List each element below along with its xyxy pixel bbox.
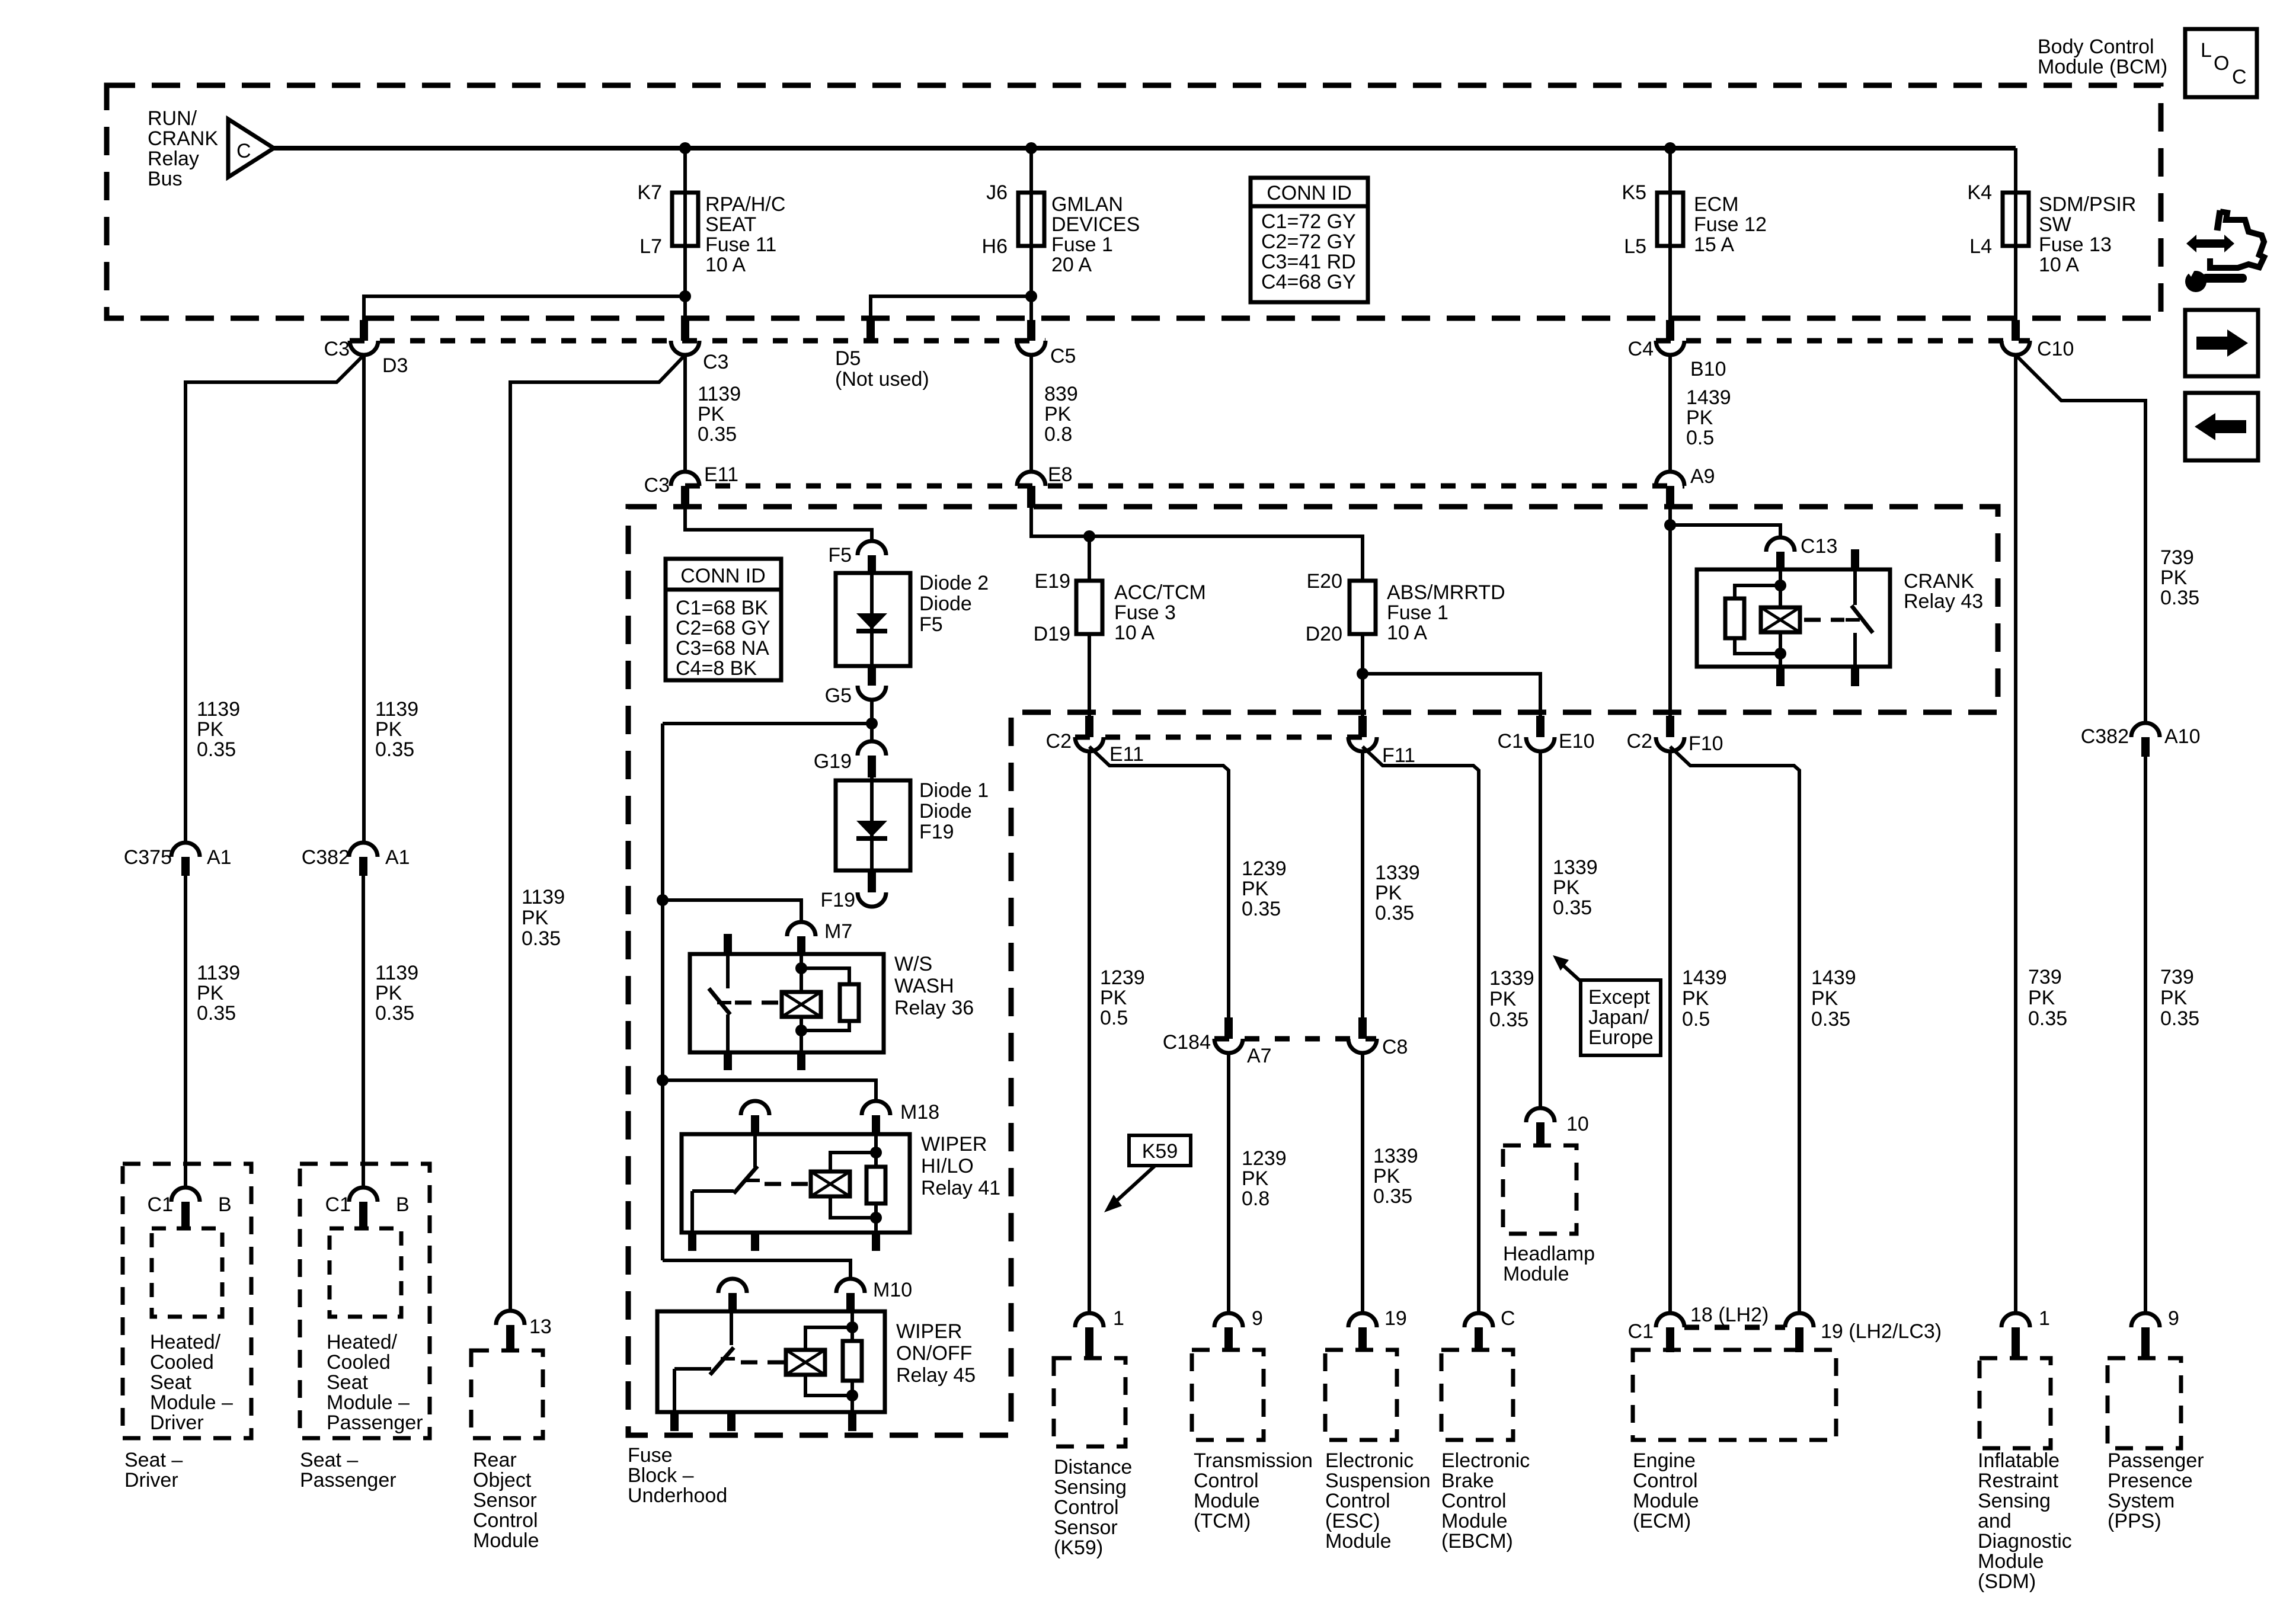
svg-text:1139: 1139 xyxy=(197,698,240,721)
wire label 1339 PK 0.35 (E10) xyxy=(1553,856,1598,919)
svg-text:C3: C3 xyxy=(703,351,728,373)
diode 1 labels xyxy=(919,779,989,843)
svg-text:C: C xyxy=(236,140,251,162)
svg-text:(SDM): (SDM) xyxy=(1978,1570,2036,1593)
svg-text:L4: L4 xyxy=(1969,235,1992,258)
svg-text:Seat: Seat xyxy=(327,1371,368,1394)
relay 36 dash link xyxy=(735,1001,782,1005)
svg-text:Module: Module xyxy=(1503,1263,1569,1285)
svg-text:1139: 1139 xyxy=(522,886,565,908)
wire label 1439 PK 0.5 (ECM) xyxy=(1682,966,1727,1030)
svg-text:ECM: ECM xyxy=(1694,193,1739,216)
Fuse Block label xyxy=(628,1444,727,1507)
svg-text:PK: PK xyxy=(2160,566,2188,589)
wire K5 fuse drop xyxy=(1668,148,1672,320)
label C184 xyxy=(1163,1031,1211,1054)
svg-text:Fuse 1: Fuse 1 xyxy=(1387,601,1448,624)
svg-text:C4=68 GY: C4=68 GY xyxy=(1261,271,1356,293)
label E8 xyxy=(1048,463,1073,486)
svg-text:PK: PK xyxy=(522,907,549,929)
svg-text:F5: F5 xyxy=(919,613,943,636)
svg-text:WIPER: WIPER xyxy=(896,1320,962,1343)
wire rail from G5 junction xyxy=(663,722,872,725)
svg-text:B10: B10 xyxy=(1690,358,1726,380)
label C1 seat driver xyxy=(148,1193,173,1216)
wire label 739 PK 0.35 (PPS) xyxy=(2160,966,2199,1030)
relay 45 pin wire xyxy=(850,1311,854,1412)
junction dot bus-J6 xyxy=(1025,142,1037,154)
svg-text:Seat –: Seat – xyxy=(300,1449,358,1471)
svg-text:Heated/: Heated/ xyxy=(150,1331,221,1353)
wire C5 down to E8 xyxy=(1029,355,1033,472)
svg-text:0.35: 0.35 xyxy=(2028,1007,2067,1030)
label C3 right xyxy=(703,351,728,373)
label 9 pps xyxy=(2168,1307,2179,1330)
wire label 1139 PK 0.35 (driver upper) xyxy=(197,698,240,761)
ecm dashed box xyxy=(1633,1350,1836,1440)
connector C375/A1 xyxy=(171,843,200,876)
connector A9 xyxy=(1656,472,1684,508)
label B10 xyxy=(1690,358,1726,380)
svg-text:CONN ID: CONN ID xyxy=(680,565,766,587)
connector row 1 dotted line (left) xyxy=(350,338,1045,344)
connector 10 headlamp xyxy=(1526,1108,1555,1145)
wire jog K7 to D3 xyxy=(364,296,685,322)
svg-text:PK: PK xyxy=(1375,882,1402,904)
svg-text:Relay: Relay xyxy=(148,148,199,170)
svg-text:C1: C1 xyxy=(148,1193,173,1216)
svg-text:0.35: 0.35 xyxy=(1242,898,1281,920)
svg-text:1439: 1439 xyxy=(1686,386,1731,409)
svg-text:0.5: 0.5 xyxy=(1682,1008,1710,1030)
label C1 left of E10 xyxy=(1498,730,1523,753)
wire bus corner to K4 fuse xyxy=(2014,148,2017,193)
svg-text:F5: F5 xyxy=(828,544,852,566)
label A1 passenger xyxy=(385,846,410,869)
svg-text:Fuse 3: Fuse 3 xyxy=(1114,601,1176,624)
svg-text:PK: PK xyxy=(1682,987,1709,1010)
connector 9 pps xyxy=(2131,1313,2160,1358)
svg-text:Module (BCM): Module (BCM) xyxy=(2038,56,2167,78)
pin label D19 xyxy=(1034,623,1070,645)
svg-text:L5: L5 xyxy=(1624,235,1646,258)
wire label 1339 PK 0.35 (ESC) xyxy=(1373,1145,1418,1208)
svg-text:PK: PK xyxy=(375,718,402,741)
svg-text:C4: C4 xyxy=(1628,338,1654,360)
svg-text:Presence: Presence xyxy=(2108,1470,2193,1492)
sdm label xyxy=(1978,1449,2072,1593)
svg-text:Underhood: Underhood xyxy=(628,1484,727,1507)
wire F10 to ECM C1 xyxy=(1668,751,1672,1313)
label G5 xyxy=(825,684,852,707)
svg-text:Passenger: Passenger xyxy=(300,1469,396,1491)
svg-text:10 A: 10 A xyxy=(1387,622,1427,644)
wire E11 diagonal to TCM xyxy=(1089,747,1229,1017)
CONN ID table (fuse block) xyxy=(666,559,781,680)
svg-text:F10: F10 xyxy=(1689,732,1723,755)
svg-text:Module: Module xyxy=(1325,1530,1392,1553)
connector 19 esc xyxy=(1348,1313,1377,1350)
pin label D20 xyxy=(1306,623,1342,645)
svg-text:Electronic: Electronic xyxy=(1325,1449,1414,1472)
wire J6 fuse drop xyxy=(1029,148,1033,320)
svg-text:(EBCM): (EBCM) xyxy=(1441,1530,1513,1553)
svg-text:Headlamp: Headlamp xyxy=(1503,1243,1595,1265)
svg-text:Restraint: Restraint xyxy=(1978,1470,2059,1492)
BCM title text xyxy=(2038,36,2167,78)
svg-text:13: 13 xyxy=(529,1315,552,1338)
relay 41 label xyxy=(921,1133,1000,1199)
fuse E20/D20 ABS/MRRTD Fuse 1 xyxy=(1350,581,1376,634)
svg-text:C2: C2 xyxy=(1627,730,1652,753)
connector D3 (BCM C3) xyxy=(350,320,378,355)
fuse J6/H6 GMLAN DEVICES Fuse 1 xyxy=(1018,193,1044,246)
fuse ABS value label xyxy=(1387,581,1505,644)
svg-text:K59: K59 xyxy=(1142,1140,1178,1163)
wire label 739 PK 0.35 (upper PPS) xyxy=(2160,546,2199,609)
relay 36 label xyxy=(894,953,974,1019)
relay 45 bottom stubs xyxy=(674,1412,852,1431)
svg-text:PK: PK xyxy=(698,403,725,425)
svg-text:Relay 43: Relay 43 xyxy=(1904,590,1983,613)
relay 45 resistor xyxy=(843,1327,862,1395)
heated cooled seat passenger label xyxy=(327,1331,423,1434)
pin label K7 xyxy=(637,181,662,204)
svg-text:1439: 1439 xyxy=(1682,966,1727,989)
svg-text:10: 10 xyxy=(1566,1113,1589,1135)
svg-text:E8: E8 xyxy=(1048,463,1073,486)
svg-text:Module: Module xyxy=(1441,1510,1508,1532)
svg-text:A9: A9 xyxy=(1690,465,1715,488)
connector C10 xyxy=(2001,320,2030,355)
connector 1 sdm xyxy=(2001,1313,2030,1358)
svg-text:RPA/H/C: RPA/H/C xyxy=(705,193,785,216)
svg-text:0.35: 0.35 xyxy=(1373,1185,1412,1208)
label A7 xyxy=(1247,1045,1272,1067)
crank relay switch bottom stub xyxy=(1851,667,1859,686)
svg-text:1239: 1239 xyxy=(1242,1147,1287,1170)
svg-text:Seat: Seat xyxy=(150,1371,191,1394)
svg-text:C2=68 GY: C2=68 GY xyxy=(676,617,770,639)
pin label L7 xyxy=(639,235,662,258)
svg-text:Control: Control xyxy=(473,1509,538,1532)
label C ebcm xyxy=(1501,1307,1515,1330)
wire label 1239 PK 0.8 xyxy=(1242,1147,1287,1210)
svg-text:C3=41 RD: C3=41 RD xyxy=(1261,251,1356,273)
wire C382 to seat passenger xyxy=(362,876,365,1188)
RUN/CRANK Relay Bus label xyxy=(148,107,218,190)
svg-text:1139: 1139 xyxy=(698,383,741,405)
relay 41 bottom stubs xyxy=(692,1233,876,1251)
svg-text:RUN/: RUN/ xyxy=(148,107,197,130)
wire E11 to distance sensor xyxy=(1088,751,1091,1313)
connector C2/E11 xyxy=(1075,716,1104,751)
Fuse Block Underhood dashed enclosure xyxy=(628,507,1998,1435)
svg-text:ABS/MRRTD: ABS/MRRTD xyxy=(1387,581,1505,604)
wire E11 to F5 xyxy=(685,505,872,541)
K59 arrow xyxy=(1104,1166,1155,1212)
ebcm dashed box xyxy=(1441,1350,1513,1440)
wire label 1339 PK 0.35 (EBCM) xyxy=(1489,967,1534,1031)
pin label K5 xyxy=(1622,181,1646,204)
label C382 xyxy=(302,846,350,869)
svg-text:0.8: 0.8 xyxy=(1044,423,1072,446)
connector E8 xyxy=(1017,472,1045,508)
svg-text:839: 839 xyxy=(1044,383,1078,405)
svg-text:Driver: Driver xyxy=(124,1469,178,1491)
svg-text:PK: PK xyxy=(2160,987,2188,1009)
svg-text:1339: 1339 xyxy=(1489,967,1534,990)
svg-text:C8: C8 xyxy=(1382,1036,1408,1058)
connector E11 (fuse block C3) xyxy=(671,472,699,508)
tcm dashed box xyxy=(1192,1350,1264,1440)
svg-text:19: 19 xyxy=(1384,1307,1407,1330)
relay 45 coil xyxy=(786,1327,852,1395)
connector D5 not used (bar only) xyxy=(866,320,875,339)
label C3 left of E11 xyxy=(644,474,670,497)
connector F19 xyxy=(858,870,886,907)
svg-text:0.35: 0.35 xyxy=(1553,897,1592,919)
fuse 11 value label xyxy=(705,193,785,276)
svg-text:L: L xyxy=(2201,39,2212,62)
svg-text:HI/LO: HI/LO xyxy=(921,1155,974,1177)
label C10 xyxy=(2037,338,2074,360)
svg-text:E10: E10 xyxy=(1559,730,1595,753)
rear object sensor dashed box xyxy=(471,1350,543,1438)
svg-text:M7: M7 xyxy=(824,920,852,943)
relay 36 coil junction dots xyxy=(795,962,807,1036)
svg-text:(ESC): (ESC) xyxy=(1325,1510,1380,1532)
crank relay box xyxy=(1697,569,1890,667)
label C1 seat passenger xyxy=(325,1193,351,1216)
svg-text:PK: PK xyxy=(1553,876,1580,899)
svg-text:C13: C13 xyxy=(1801,535,1837,558)
svg-text:Relay 36: Relay 36 xyxy=(894,997,974,1019)
svg-text:1139: 1139 xyxy=(375,962,418,984)
pps label xyxy=(2108,1449,2204,1532)
svg-text:Relay 41: Relay 41 xyxy=(921,1177,1000,1199)
svg-text:PK: PK xyxy=(1100,987,1127,1009)
svg-text:Diode 1: Diode 1 xyxy=(919,779,989,802)
svg-text:C382: C382 xyxy=(302,846,350,869)
svg-text:19 (LH2/LC3): 19 (LH2/LC3) xyxy=(1821,1320,1942,1343)
wire C375 to seat driver xyxy=(184,876,187,1188)
svg-text:WASH: WASH xyxy=(894,975,954,997)
svg-text:K4: K4 xyxy=(1967,181,1992,204)
relay 36 bottom stubs xyxy=(728,1052,801,1070)
connector M18 xyxy=(862,1101,890,1134)
svg-text:1239: 1239 xyxy=(1242,857,1287,880)
svg-text:Except: Except xyxy=(1588,986,1650,1009)
svg-text:GMLAN: GMLAN xyxy=(1051,193,1123,216)
svg-text:(PPS): (PPS) xyxy=(2108,1510,2161,1532)
svg-text:C1: C1 xyxy=(325,1193,351,1216)
wire jog J6 to D5 xyxy=(871,296,1031,322)
svg-text:0.35: 0.35 xyxy=(2160,1007,2199,1030)
wire label 1239 PK 0.5 xyxy=(1100,966,1145,1029)
connector 19 ecm xyxy=(1785,1313,1814,1352)
svg-text:Module: Module xyxy=(1978,1550,2044,1573)
diode D2 box xyxy=(836,573,910,666)
svg-text:C3=68 NA: C3=68 NA xyxy=(676,637,769,660)
connector C2/F10 xyxy=(1656,716,1684,751)
svg-text:Control: Control xyxy=(1194,1470,1259,1492)
diode 2 symbol xyxy=(856,613,887,631)
junction dot M18 feed xyxy=(657,1074,669,1086)
label E11 right xyxy=(1109,743,1144,766)
svg-text:M10: M10 xyxy=(873,1279,912,1301)
svg-text:10 A: 10 A xyxy=(1114,622,1155,644)
ECM LH2 dotted line xyxy=(1684,1325,1785,1330)
svg-text:C1: C1 xyxy=(1628,1320,1654,1343)
svg-text:A1: A1 xyxy=(385,846,410,869)
svg-text:Bus: Bus xyxy=(148,168,183,190)
wire E20 branch to E10 xyxy=(1363,674,1540,716)
connector C382/A10 splice xyxy=(2131,723,2160,757)
relay 45 dash link xyxy=(741,1361,786,1365)
crank relay resistor loop xyxy=(1725,585,1780,654)
svg-text:E20: E20 xyxy=(1307,570,1343,593)
connector M7 xyxy=(787,922,816,954)
fuse K7/L7 RPA/H/C SEAT Fuse 11 xyxy=(672,193,698,246)
svg-text:0.35: 0.35 xyxy=(1489,1009,1528,1031)
wire M7 feed xyxy=(663,900,801,922)
label F5 xyxy=(828,544,852,566)
wire through diode 2 xyxy=(870,573,874,666)
svg-text:PK: PK xyxy=(1489,988,1517,1010)
seat passenger outer dashed box xyxy=(300,1164,430,1438)
connector C1/B seat driver xyxy=(171,1188,200,1228)
svg-text:Body Control: Body Control xyxy=(2038,36,2154,58)
relay 36 coil xyxy=(782,954,821,1052)
svg-text:Fuse 12: Fuse 12 xyxy=(1694,213,1767,236)
esc dashed box xyxy=(1325,1350,1397,1440)
svg-text:Relay 45: Relay 45 xyxy=(896,1364,976,1387)
svg-text:Module: Module xyxy=(1633,1490,1699,1512)
wire bus RUN/CRANK horizontal xyxy=(274,146,2016,151)
svg-text:PK: PK xyxy=(1811,987,1838,1010)
connector C3 (x1156) xyxy=(671,320,699,355)
svg-text:Control: Control xyxy=(1633,1470,1698,1492)
label 1 distance xyxy=(1113,1307,1124,1330)
svg-text:C4=8 BK: C4=8 BK xyxy=(676,657,757,680)
svg-text:Inflatable: Inflatable xyxy=(1978,1449,2060,1472)
Body Control Module (BCM) dashed enclosure xyxy=(107,85,2161,318)
junction dot crank feed xyxy=(1664,519,1676,531)
connector row 1 dotted line (right) xyxy=(1656,338,2030,344)
connector M10 xyxy=(836,1279,865,1311)
crank relay switch xyxy=(1846,569,1873,667)
wire left rail xyxy=(661,724,664,1260)
connector C13 xyxy=(1766,537,1795,569)
label M18 xyxy=(900,1101,939,1124)
svg-text:SEAT: SEAT xyxy=(705,213,756,236)
wire C4 down to A9 xyxy=(1668,355,1672,472)
connector 13 rear object xyxy=(496,1311,525,1350)
svg-text:1339: 1339 xyxy=(1373,1145,1418,1167)
svg-text:9: 9 xyxy=(1252,1307,1263,1330)
label 1 sdm xyxy=(2039,1307,2050,1330)
label 10 xyxy=(1566,1113,1589,1135)
svg-text:ACC/TCM: ACC/TCM xyxy=(1114,581,1206,604)
svg-text:D19: D19 xyxy=(1034,623,1070,645)
relay 41 coil xyxy=(811,1153,876,1218)
relay 41 resistor xyxy=(866,1153,885,1218)
wire F11 to C8 xyxy=(1361,751,1364,1017)
svg-text:20 A: 20 A xyxy=(1051,254,1092,276)
svg-text:1139: 1139 xyxy=(375,698,418,721)
wire C3 split to rear object sensor xyxy=(510,355,685,1311)
svg-text:K7: K7 xyxy=(637,181,662,204)
diode D1 box xyxy=(836,780,910,870)
label C2 left xyxy=(1046,730,1072,753)
junction dot G5 rail xyxy=(866,718,878,729)
svg-text:Sensor: Sensor xyxy=(473,1489,537,1512)
connector 1 distance xyxy=(1075,1313,1104,1358)
relay 36 top-left stub xyxy=(724,934,732,955)
label M7 xyxy=(824,920,852,943)
label C382 left of A10 xyxy=(2081,725,2129,748)
svg-text:CONN ID: CONN ID xyxy=(1267,182,1352,204)
label 9 tcm xyxy=(1252,1307,1263,1330)
svg-text:C184: C184 xyxy=(1163,1031,1211,1054)
pps dashed box xyxy=(2108,1358,2181,1448)
svg-text:Brake: Brake xyxy=(1441,1470,1494,1492)
label C4 left xyxy=(1628,338,1654,360)
ebcm label xyxy=(1441,1449,1530,1553)
svg-text:(TCM): (TCM) xyxy=(1194,1510,1251,1532)
svg-text:CRANK: CRANK xyxy=(148,127,218,150)
label B seat driver xyxy=(218,1193,232,1216)
svg-text:Passenger: Passenger xyxy=(327,1411,423,1434)
junction dot K7 jog xyxy=(679,290,691,302)
svg-text:C375: C375 xyxy=(124,846,172,869)
svg-text:A1: A1 xyxy=(207,846,232,869)
svg-text:C: C xyxy=(1501,1307,1515,1330)
service icon wrench xyxy=(2182,264,2247,292)
wire label 1139 PK 0.35 (passenger lower) xyxy=(375,962,418,1025)
seat passenger label xyxy=(300,1449,396,1491)
connector C4 xyxy=(1656,320,1684,355)
crank relay coil xyxy=(1761,607,1800,632)
svg-text:Europe: Europe xyxy=(1588,1026,1654,1049)
wire E19 drop xyxy=(1088,536,1091,581)
connector G19 xyxy=(858,741,886,777)
seat driver outer dashed box xyxy=(123,1164,251,1438)
svg-text:System: System xyxy=(2108,1490,2175,1512)
wire D3 down to passenger seat xyxy=(362,355,366,843)
Except Japan/Europe box xyxy=(1581,980,1661,1055)
wire label 1439 PK 0.35 (ECM) xyxy=(1811,966,1856,1030)
svg-text:Fuse: Fuse xyxy=(628,1444,673,1467)
svg-text:1239: 1239 xyxy=(1100,966,1145,989)
connector C ebcm xyxy=(1464,1313,1493,1350)
connector relay45 left pin xyxy=(718,1279,747,1311)
svg-text:D20: D20 xyxy=(1306,623,1342,645)
heated cooled seat module passenger dashed box xyxy=(330,1228,401,1317)
svg-text:C3: C3 xyxy=(324,338,350,360)
svg-text:18 (LH2): 18 (LH2) xyxy=(1690,1304,1769,1326)
svg-text:0.35: 0.35 xyxy=(698,423,737,446)
svg-text:O: O xyxy=(2214,52,2229,75)
svg-text:CRANK: CRANK xyxy=(1904,570,1974,593)
relay 41 pin wire xyxy=(874,1134,878,1233)
rear object sensor label xyxy=(473,1449,539,1552)
svg-text:Cooled: Cooled xyxy=(150,1351,214,1374)
svg-text:Diode: Diode xyxy=(919,800,972,822)
label 13 xyxy=(529,1315,552,1338)
diode 1 symbol xyxy=(856,821,887,838)
